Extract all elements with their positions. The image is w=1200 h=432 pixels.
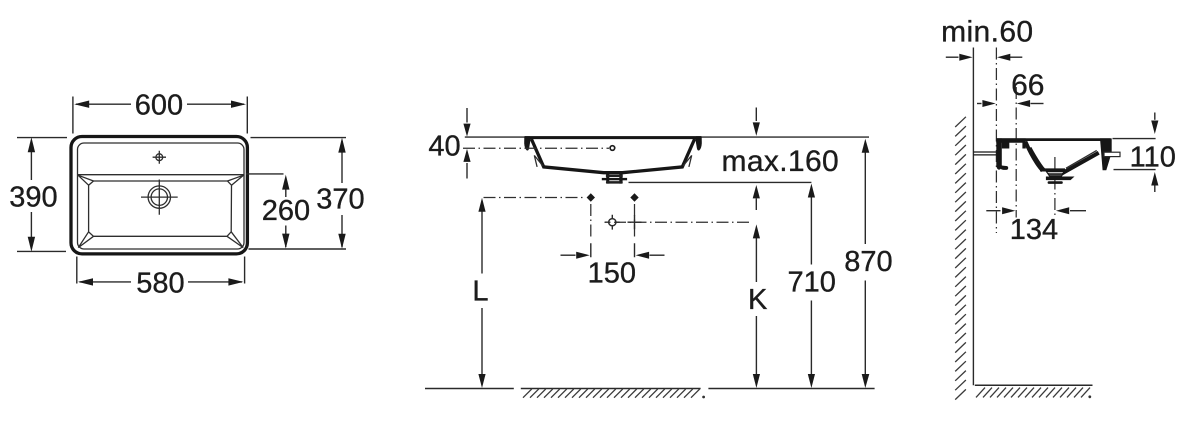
svg-text:370: 370 [316,184,364,216]
front view: single hole dash-dot line [605,221,750,223]
side view: drain axis dash-dot [1054,157,1056,218]
dimension 870 [844,139,892,388]
front view: left bowl wall [531,139,543,167]
front view: right bowl wall [682,139,694,167]
ground hatch end dot [702,396,705,399]
ground hatching [523,389,700,398]
fixing hole right [630,193,638,202]
front view: right rim tab [695,136,701,150]
svg-text:L: L [472,275,488,307]
side view: bowl bottom band [1040,168,1065,171]
top view: corner facet diagonals [78,175,244,247]
side view: rim overhang bar [1104,152,1120,156]
side view: fixing axis dash-dot [995,48,997,234]
front view: twin fixing holes dash-dot line [484,197,586,199]
side view: floor hatching [976,388,1090,398]
svg-text:110: 110 [1130,141,1176,173]
side view: tap hole side walls [1002,142,1010,149]
svg-text:580: 580 [136,268,184,300]
svg-text:260: 260 [262,195,310,227]
axis cross mark [628,215,642,229]
dimension 260 [246,174,310,249]
front view: drain trap body [602,172,627,184]
svg-text:66: 66 [1011,69,1044,102]
dimension min.60 [941,16,1033,61]
front view: top reference line [465,136,869,138]
side view: drain bottom ring [1048,181,1063,184]
top view: inner rim rounded rect [78,143,245,249]
front view: overflow hole [610,146,615,151]
front view: right inner corner lines [683,155,692,167]
side view: drain nut band [1046,177,1075,181]
front view: left rim tab [524,136,530,150]
dimension 134 [986,207,1086,246]
side view: counter floor line [975,384,1093,386]
dimension L [472,198,488,388]
fixing hole left [587,193,595,202]
dimension 370 [249,138,365,249]
side view: front rim wedge [1100,138,1112,170]
single fixing hole marker [605,215,620,230]
svg-text:K: K [748,284,768,316]
side view: drain mouth trapezoid [1046,171,1064,176]
side view: wall hatching [955,117,966,400]
dimension 40 [428,108,470,179]
ground line [425,388,875,390]
dimension 66 [977,69,1044,107]
top view: faucet hole [153,151,166,164]
side view: bowl right inner line [1066,150,1097,168]
svg-text:710: 710 [788,267,836,299]
front view: sink top rim line [525,136,701,139]
front view: left inner corner lines [534,155,543,167]
front view: centre dash-dot line [463,147,609,149]
svg-text:40: 40 [428,130,460,162]
dimension 580 [77,257,245,300]
dimension 600 [73,89,247,133]
side view: sink top surface [996,138,1110,141]
side view: tap axis dash-dot [1015,87,1017,218]
dimension 150 [561,243,665,289]
dimension 390 [9,137,67,252]
front view: bowl bottom [543,167,684,173]
top view: drain with crosshair [141,180,178,215]
side view: back ledge block [996,138,1025,142]
dimension 110 [1113,113,1176,193]
side view: bowl right slope [1060,153,1099,175]
side view: wall face line [972,48,974,386]
svg-text:870: 870 [844,246,892,278]
svg-text:134: 134 [1010,214,1058,246]
svg-text:150: 150 [588,258,636,290]
side view: drain thread lines [1047,173,1063,174]
dimension K [748,224,768,388]
side view: back mounting hook [996,138,1002,169]
fixing hole drop lines [591,204,635,238]
svg-text:600: 600 [135,89,183,121]
dimension 710 [788,184,836,389]
top view: basin floor octagon [89,181,232,236]
svg-text:390: 390 [9,181,57,213]
top view: basin back edge line [78,174,245,176]
svg-text:min.60: min.60 [941,16,1033,49]
dimension max.160 [722,108,840,211]
side view: bowl left wall outer [1025,142,1042,171]
side view: floor hatch end dot [1088,395,1091,398]
top view: outer rim rounded rect [71,137,247,254]
side view: hook foot [1000,165,1009,170]
svg-text:max.160: max.160 [722,145,840,178]
side view: bowl left wall inner (overflow channel) [1030,148,1044,170]
front view: drain bottom reference line [629,181,812,183]
side view: bolt line to wall [973,152,996,155]
